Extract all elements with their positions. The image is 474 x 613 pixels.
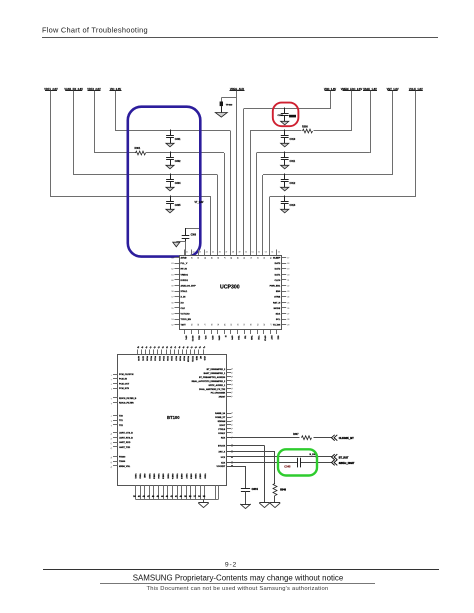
svg-text:XRX07: XRX07	[219, 397, 226, 399]
svg-text:NC: NC	[199, 356, 201, 360]
svg-text:51: 51	[249, 257, 251, 259]
svg-text:57: 57	[171, 297, 173, 299]
highlight box blue	[128, 107, 201, 257]
svg-text:52: 52	[256, 257, 258, 259]
wire L300 to ground	[221, 106, 223, 112]
svg-text:AVDD: AVDD	[181, 257, 187, 260]
svg-text:GND7: GND7	[199, 474, 201, 480]
svg-text:PWR_EN1: PWR_EN1	[270, 286, 281, 288]
svg-text:MXB0_VBL: MXB0_VBL	[119, 466, 131, 468]
svg-text:TCXO_EN: TCXO_EN	[181, 319, 192, 321]
svg-text:GPI6: GPI6	[217, 336, 219, 342]
svg-text:GND: GND	[143, 474, 145, 479]
svg-text:C308: C308	[278, 115, 284, 117]
svg-text:23: 23	[287, 291, 289, 293]
svg-text:MODE: MODE	[274, 308, 281, 310]
svg-text:VSS1: VSS1	[134, 474, 136, 480]
wire rail VCLK right (y197)	[270, 196, 416, 198]
svg-text:PIO1: PIO1	[150, 356, 152, 362]
U300 right pins	[270, 258, 290, 327]
svg-text:44: 44	[206, 251, 208, 253]
inductor L300	[220, 102, 233, 107]
svg-text:PIO9: PIO9	[183, 356, 185, 362]
wire branch VREG_AUX to L300	[221, 98, 237, 102]
ground below R346	[270, 503, 280, 508]
svg-text:VDD: VDD	[203, 356, 205, 361]
svg-text:63: 63	[171, 263, 173, 265]
wire to C344	[227, 465, 246, 488]
svg-text:42: 42	[192, 251, 194, 253]
wire from VBT_1.8V flag	[392, 91, 394, 175]
svg-text:PIO6: PIO6	[170, 356, 172, 362]
svg-text:GND3: GND3	[162, 474, 164, 480]
ground under U301	[198, 499, 208, 507]
svg-text:SCL: SCL	[204, 336, 206, 341]
wire rail VBT right (y175)	[263, 174, 393, 176]
svg-text:TX600: TX600	[119, 461, 126, 463]
wire to C330 ground	[227, 445, 265, 503]
svg-text:47: 47	[225, 251, 227, 253]
svg-text:Flow Chart of Troubleshooting: Flow Chart of Troubleshooting	[42, 25, 148, 34]
svg-text:PIO5: PIO5	[166, 356, 168, 362]
svg-text:UCP300: UCP300	[220, 284, 240, 290]
svg-text:PIO11: PIO11	[191, 356, 193, 363]
svg-text:REAL_AUTOTXT3_DWNSMPRX_2: REAL_AUTOTXT3_DWNSMPRX_2	[192, 380, 226, 383]
U300 bottom pins	[184, 324, 279, 343]
svg-text:CLK0: CLK0	[274, 280, 280, 282]
svg-text:46: 46	[219, 251, 221, 253]
svg-text:52: 52	[258, 251, 260, 253]
capacitor C301	[166, 130, 181, 147]
wire rail VIO left (y131)	[116, 130, 231, 132]
wire rail drop to U300 pin x243.5	[243, 109, 245, 255]
svg-text:27: 27	[287, 314, 289, 316]
svg-text:C310: C310	[290, 138, 296, 141]
svg-text:TCK: TCK	[257, 336, 259, 341]
svg-text:PCM_IN: PCM_IN	[119, 379, 127, 381]
connector 32KHZ_DIGIT	[332, 460, 355, 466]
svg-text:ANALOG_BYP: ANALOG_BYP	[181, 285, 197, 288]
wire C306 bottom	[176, 238, 185, 255]
svg-text:29: 29	[256, 324, 258, 326]
svg-text:AIO0: AIO0	[137, 356, 140, 362]
connector CLK32K_BT	[332, 435, 355, 441]
svg-text:VSS4: VSS4	[157, 474, 160, 480]
svg-text:39: 39	[190, 324, 192, 326]
capacitor C304	[166, 174, 181, 191]
capacitor C313	[281, 196, 296, 213]
wire rail drop to U300 pin x217.5	[217, 175, 219, 255]
svg-text:C302: C302	[175, 160, 181, 163]
footer rule 1	[43, 569, 439, 571]
svg-text:RES: RES	[195, 356, 197, 361]
svg-text:BTCUX: BTCUX	[218, 446, 226, 448]
svg-text:C344: C344	[252, 487, 259, 491]
svg-text:9-2: 9-2	[225, 561, 237, 568]
wire rail VMEM right (y131) w/ gap for R308	[250, 130, 352, 132]
svg-text:GND6: GND6	[189, 474, 191, 480]
svg-text:20: 20	[287, 274, 289, 276]
svg-text:SDA: SDA	[276, 313, 281, 316]
svg-text:53: 53	[262, 257, 264, 259]
svg-text:XXX: XXX	[221, 463, 226, 465]
resistor R308	[302, 126, 313, 133]
svg-text:BT100: BT100	[167, 415, 180, 420]
svg-text:VSS2: VSS2	[139, 474, 141, 480]
svg-text:PIO3: PIO3	[158, 356, 160, 362]
wire from VRF2_2.8V flag	[94, 91, 96, 153]
svg-text:VSS3: VSS3	[148, 474, 150, 480]
svg-text:41: 41	[186, 251, 188, 253]
U300 top pins	[184, 250, 280, 260]
svg-text:25: 25	[287, 302, 289, 304]
svg-text:56: 56	[171, 302, 173, 304]
svg-text:VSS9: VSS9	[203, 474, 205, 480]
wire C306 top	[186, 228, 200, 236]
svg-text:C304: C304	[175, 182, 181, 185]
svg-text:53: 53	[265, 251, 267, 253]
svg-text:26: 26	[275, 324, 277, 326]
net flag VRF2_2.8V	[87, 87, 101, 91]
svg-text:CONLY: CONLY	[218, 433, 226, 435]
svg-text:60: 60	[171, 280, 173, 282]
svg-text:STRB: STRB	[274, 297, 280, 299]
svg-text:PCM_CLKSYN: PCM_CLKSYN	[119, 374, 134, 376]
svg-text:50: 50	[245, 251, 247, 253]
svg-text:62: 62	[171, 269, 173, 271]
svg-text:VT_1.8V: VT_1.8V	[195, 202, 204, 204]
svg-text:BART_DWNSMPRX_1: BART_DWNSMPRX_1	[204, 372, 226, 375]
svg-text:43: 43	[199, 251, 201, 253]
svg-text:43: 43	[197, 257, 199, 259]
svg-text:TP300: TP300	[226, 105, 233, 107]
svg-text:32: 32	[236, 324, 238, 326]
svg-text:PCM_OUT: PCM_OUT	[119, 383, 130, 385]
svg-text:GND4: GND4	[171, 474, 174, 480]
svg-text:27: 27	[269, 324, 271, 326]
wire rail drop to U300 pin x230.5	[230, 131, 232, 255]
svg-text:48: 48	[230, 257, 232, 259]
ground below C330	[259, 503, 269, 508]
ground arrow C306	[173, 242, 180, 247]
svg-text:54: 54	[271, 251, 273, 253]
svg-text:DAT2: DAT2	[275, 268, 281, 271]
svg-text:RF_IN: RF_IN	[181, 269, 188, 271]
resistor R346	[273, 484, 287, 496]
svg-text:VSS7: VSS7	[185, 474, 187, 480]
svg-text:COMB_XT: COMB_XT	[215, 417, 226, 419]
svg-text:SCL: SCL	[276, 319, 281, 321]
svg-text:C311: C311	[290, 160, 296, 163]
svg-text:VREG1: VREG1	[181, 274, 189, 276]
svg-text:TMS: TMS	[250, 336, 252, 341]
svg-text:52: 52	[171, 325, 173, 327]
svg-text:PX600: PX600	[119, 456, 126, 458]
svg-text:VSS5: VSS5	[166, 474, 168, 480]
ground arrow at L300	[215, 113, 227, 118]
highlight box green	[278, 449, 317, 475]
wire from VMEM_LDO_2.6V flag	[351, 91, 353, 131]
ground below C344	[240, 504, 250, 509]
IC U301 top pins	[137, 345, 206, 363]
net flag VCLK_1.8V	[409, 87, 423, 91]
svg-text:DAT3: DAT3	[275, 262, 281, 265]
capacitor C345	[284, 458, 300, 469]
svg-text:31: 31	[243, 324, 245, 326]
svg-text:R308: R308	[302, 126, 308, 129]
capacitor C310	[281, 130, 296, 147]
wire rail VAN1 left (y175)	[74, 174, 218, 176]
svg-text:DAT1: DAT1	[275, 273, 281, 276]
svg-text:RST_N: RST_N	[273, 302, 281, 304]
wire ground bus	[135, 499, 218, 501]
resistor R301	[135, 147, 146, 155]
svg-text:RAMB_2A: RAMB_2A	[215, 412, 226, 415]
svg-text:GND5: GND5	[180, 474, 182, 480]
svg-text:21: 21	[287, 280, 289, 282]
svg-text:PIO0: PIO0	[145, 356, 147, 362]
svg-text:53: 53	[171, 319, 173, 321]
svg-text:XO: XO	[181, 302, 184, 304]
svg-text:38: 38	[197, 324, 199, 326]
svg-text:64: 64	[171, 258, 173, 260]
svg-text:SLEEP: SLEEP	[273, 258, 281, 260]
svg-text:CLK: CLK	[181, 308, 186, 310]
U300 left pins	[171, 257, 196, 327]
svg-text:GPO2: GPO2	[191, 336, 193, 343]
svg-text:28: 28	[287, 319, 289, 321]
wire rail drop to U300 pin x250	[250, 131, 252, 255]
svg-text:40: 40	[184, 324, 186, 326]
wire 32KHZ_DIGIT	[227, 462, 332, 464]
svg-text:61: 61	[171, 274, 173, 276]
net flag VAN1_RX_2.8V	[64, 87, 83, 91]
svg-text:54: 54	[171, 314, 173, 316]
svg-text:46: 46	[216, 257, 218, 259]
wire rail drop to U300 pin x263	[262, 175, 264, 255]
svg-text:XOUT: XOUT	[219, 425, 226, 427]
capacitor C306	[182, 235, 197, 239]
wire rail drop to U300 pin x211	[210, 197, 212, 255]
svg-text:UART_CTS_B: UART_CTS_B	[119, 432, 133, 435]
svg-text:GND2: GND2	[152, 474, 154, 480]
wire CLK32K_BT	[227, 437, 332, 439]
svg-text:TDI: TDI	[244, 336, 246, 340]
svg-text:32KHz_DIGIT: 32KHz_DIGIT	[339, 462, 355, 465]
svg-text:18: 18	[287, 263, 289, 265]
wire rail VDD_1.8V (y109)	[244, 108, 331, 110]
capacitor C305	[166, 196, 181, 213]
svg-text:28: 28	[262, 324, 264, 326]
highlight circle red	[273, 103, 299, 127]
svg-text:BT_RST: BT_RST	[339, 456, 349, 459]
IC U301 bottom pins	[133, 474, 218, 500]
IC U301 right pins	[192, 368, 234, 468]
net flag VIO_2.8V	[110, 87, 122, 91]
wire from VASK_1.8V flag	[370, 91, 372, 153]
svg-text:R301: R301	[135, 147, 141, 150]
label C308 value	[278, 115, 297, 118]
svg-text:C306: C306	[191, 235, 197, 237]
svg-text:UART_TXD: UART_TXD	[119, 446, 131, 449]
svg-text:17: 17	[287, 258, 289, 260]
svg-text:33: 33	[229, 324, 231, 326]
svg-text:VSS8: VSS8	[194, 474, 196, 480]
wire R346 to ground	[274, 496, 276, 504]
svg-text:PIO10: PIO10	[187, 356, 189, 363]
wire C344 to ground	[245, 491, 247, 504]
svg-text:GP13: GP13	[263, 336, 265, 342]
svg-text:R346: R346	[280, 488, 286, 491]
svg-text:PIO8: PIO8	[178, 356, 180, 362]
svg-text:PIO2: PIO2	[154, 356, 156, 362]
capacitor C344	[241, 487, 258, 491]
svg-text:26: 26	[287, 308, 289, 310]
svg-text:DVDD1: DVDD1	[181, 280, 189, 282]
capacitor C312	[281, 174, 296, 191]
net flag VBT_1.8V	[387, 87, 399, 91]
wire rail VRF2 left (y153) w/ gap for R301	[94, 152, 224, 154]
svg-text:BT_DWNSMPRX_2: BT_DWNSMPRX_2	[207, 369, 226, 371]
IC U301 left pins	[110, 374, 137, 469]
svg-text:50: 50	[243, 257, 245, 259]
svg-text:R307: R307	[293, 434, 299, 436]
svg-text:C313: C313	[290, 204, 296, 207]
wire to R346	[227, 451, 275, 484]
svg-text:VCTCXO: VCTCXO	[181, 314, 190, 316]
wire rail drop to U300 pin x256.5	[256, 153, 258, 255]
svg-text:C312: C312	[290, 182, 296, 185]
svg-text:30: 30	[249, 324, 251, 326]
svg-text:UCX: UCX	[221, 457, 226, 459]
svg-text:RX/CS_FILTER_B: RX/CS_FILTER_B	[119, 398, 137, 400]
svg-text:PLL_V: PLL_V	[181, 263, 188, 265]
svg-text:CLK32K_BT: CLK32K_BT	[339, 436, 354, 440]
svg-text:37: 37	[203, 324, 205, 326]
svg-text:C301: C301	[175, 138, 181, 141]
op-amp U300 body	[180, 256, 282, 330]
svg-text:22: 22	[287, 286, 289, 288]
svg-text:SDRAM: SDRAM	[218, 420, 226, 423]
footer rule 2	[100, 583, 375, 585]
svg-text:58: 58	[171, 291, 173, 293]
svg-text:19: 19	[287, 269, 289, 271]
capacitor C308	[281, 108, 289, 125]
svg-text:XTAL1: XTAL1	[181, 290, 189, 293]
net flag VMEM_LDO_2.6V	[341, 87, 363, 91]
svg-text:29: 29	[287, 325, 289, 327]
svg-text:44: 44	[203, 257, 205, 259]
svg-text:VSS6: VSS6	[176, 474, 178, 480]
svg-text:PX_CROSSMX: PX_CROSSMX	[211, 393, 226, 395]
svg-text:35: 35	[216, 324, 218, 326]
capacitor C311	[281, 152, 296, 169]
svg-text:51: 51	[252, 251, 254, 253]
svg-text:PIO4: PIO4	[162, 356, 165, 362]
svg-text:49: 49	[238, 251, 240, 253]
svg-text:42: 42	[190, 257, 192, 259]
svg-text:54: 54	[269, 257, 271, 259]
svg-text:RX/CS_FILTER: RX/CS_FILTER	[119, 403, 134, 405]
svg-text:RXX: RXX	[221, 438, 226, 440]
svg-text:55: 55	[171, 308, 173, 310]
svg-text:45: 45	[212, 251, 214, 253]
svg-text:X_IN: X_IN	[181, 297, 186, 299]
wire from VRF1_2.8V flag	[50, 91, 52, 197]
wire from VREG_AUX flag	[236, 91, 238, 256]
net flag VDD_1.8V	[324, 87, 337, 91]
svg-text:XRT_X: XRT_X	[218, 452, 225, 454]
svg-text:C305: C305	[175, 204, 181, 207]
wire from VCLK_1.8V flag	[415, 91, 417, 197]
svg-text:PIO7: PIO7	[174, 356, 176, 362]
svg-text:34: 34	[223, 324, 225, 326]
svg-text:This Document can not be used: This Document can not be used without Sa…	[147, 586, 329, 592]
svg-text:49: 49	[236, 257, 238, 259]
net flag VRF1_2.8V	[44, 87, 58, 91]
svg-text:48: 48	[232, 251, 234, 253]
wire rail drop to U300 pin x269.5	[269, 197, 271, 255]
svg-text:PTXLB: PTXLB	[218, 429, 225, 431]
svg-text:UART_RTS_B: UART_RTS_B	[119, 437, 133, 440]
wire rail drop to U300 pin x224	[224, 153, 226, 255]
svg-text:DUAL_ABRTWX2_PX_TX2: DUAL_ABRTWX2_PX_TX2	[199, 388, 226, 391]
svg-text:47: 47	[223, 257, 225, 259]
wire BT_RST	[227, 456, 332, 458]
wire from VAN1_RX_2.8V flag	[73, 91, 75, 175]
wire from VDD_1.8V flag	[330, 91, 332, 109]
svg-text:TDO: TDO	[237, 336, 239, 341]
svg-text:AIO1: AIO1	[141, 356, 144, 362]
wire from VIO_2.8V flag	[115, 91, 117, 131]
svg-text:PCM_SYN: PCM_SYN	[119, 388, 130, 390]
svg-text:24: 24	[287, 297, 289, 299]
capacitor C302	[166, 152, 181, 169]
svg-text:RST: RST	[270, 336, 272, 341]
svg-text:SDA: SDA	[198, 336, 201, 341]
svg-text:59: 59	[171, 286, 173, 288]
svg-text:45: 45	[210, 257, 212, 259]
svg-text:C345: C345	[284, 464, 291, 468]
wire rail VRF1 left (y197)	[51, 196, 211, 198]
resistor R307	[293, 434, 312, 440]
svg-text:SAMSUNG Proprietary-Contents m: SAMSUNG Proprietary-Contents may change …	[133, 574, 344, 583]
svg-text:36: 36	[210, 324, 212, 326]
svg-text:UART_RXD: UART_RXD	[119, 441, 131, 444]
net flag VREG_AUX	[230, 87, 245, 91]
svg-text:BT_PREAMPTX3_AUXRX0: BT_PREAMPTX3_AUXRX0	[199, 376, 226, 379]
IC U301 body	[118, 355, 227, 486]
wire rail VASK right (y153)	[257, 152, 370, 154]
net flag VASK_1.8V	[363, 87, 377, 91]
svg-text:SPITX_AUXRX_1: SPITX_AUXRX_1	[208, 384, 226, 387]
svg-text:VCOXRT: VCOXRT	[217, 466, 226, 468]
connector BT_RST	[332, 454, 349, 460]
svg-text:55: 55	[278, 251, 280, 253]
header rule	[42, 37, 438, 39]
